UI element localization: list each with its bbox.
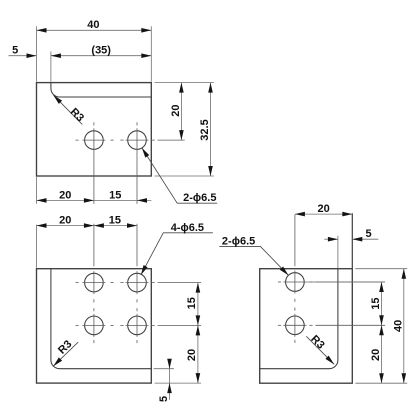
dimension 15 (view3 right row spacing) [306,282,385,325]
view1 bend line with R3 fillet corner [51,83,151,97]
dimension 40 (view1 overall width) [37,19,152,82]
svg-text:5: 5 [158,396,170,402]
dimension 20 (view2 right bottom offset) [155,325,202,383]
view3 side-view outline [260,269,353,384]
view2 vertical center line left column [93,224,95,343]
dimension (35) (view1 inner width) [51,44,151,81]
svg-text:4-ϕ6.5: 4-ϕ6.5 [171,222,204,234]
label R3 (view2 fillet radius) [53,338,78,366]
dimension 5 (view3 flange thickness) [324,228,378,268]
svg-text:15: 15 [370,297,382,309]
view1 top-view outline [37,83,152,176]
view2 hole E (φ6.5 bottom-left) [85,316,104,335]
view1 vertical center line hole B [136,122,138,204]
svg-text:15: 15 [109,215,121,227]
svg-text:20: 20 [59,215,71,227]
view3 horizontal center line top hole [278,281,385,283]
view2 vertical center line right column [136,224,138,343]
dimension 15 (view2 right row spacing) [186,283,200,326]
view3 horizontal center line bottom hole [278,324,385,326]
svg-text:15: 15 [186,297,198,309]
leader 2-φ6.5 (view1 holes callout) [142,148,217,204]
view3 vertical center line through holes [294,215,296,344]
dimension 20 (view3 top hole offset) [295,203,352,268]
view1 hole B (φ6.5 right) [128,131,147,150]
svg-text:20: 20 [186,349,198,361]
view3 bend line with R3 fillet corner [260,269,338,369]
dimension 40 (view3 overall height) [355,269,407,384]
view2 hole C (φ6.5 top-left) [85,273,104,292]
view2 horizontal center line bottom row [76,324,202,326]
svg-text:20: 20 [370,349,382,361]
svg-text:20: 20 [170,104,182,116]
svg-text:(35): (35) [91,44,111,56]
view1 horizontal center line through holes [76,139,185,141]
view1 vertical center line hole A [93,122,95,204]
view2 hole F (φ6.5 bottom-right) [128,316,147,335]
svg-text:5: 5 [366,228,372,240]
dimension 5 (view2 base thickness) [154,359,174,402]
dimension 32.5 (view1 overall depth) [155,83,214,176]
svg-text:2-ϕ6.5: 2-ϕ6.5 [222,235,255,247]
label R3 (view3 fillet radius) [306,333,334,364]
view2 front-view outline [37,269,152,383]
dimension 20 (view1 right, hole offset) [155,83,214,141]
svg-text:5: 5 [12,44,18,56]
svg-text:40: 40 [392,320,404,332]
view3 hole G (φ6.5 top) [286,273,305,292]
dimension 20 (view3 right bottom offset) [370,325,384,383]
svg-text:32.5: 32.5 [199,119,211,140]
view3 hole H (φ6.5 bottom) [286,316,305,335]
svg-text:15: 15 [109,189,121,201]
leader 4-φ6.5 (view2 holes callout) [141,222,213,275]
svg-text:20: 20 [59,189,71,201]
view2 hole D (φ6.5 top-right) [128,273,147,292]
dimension 20 and 15 (view2 top hole spacing) [37,215,138,268]
view1 hole A (φ6.5 left) [85,131,104,150]
svg-text:40: 40 [87,19,99,31]
view2 horizontal center line top row [76,282,202,284]
svg-text:2-ϕ6.5: 2-ϕ6.5 [183,192,216,204]
leader 2-φ6.5 (view3 holes callout) [219,235,288,275]
view2 bend line with R3 fillet corner [51,269,151,369]
dimension 5 (view1 flange thickness) [9,44,37,58]
svg-text:20: 20 [317,203,329,215]
label R3 (view1 fillet radius) [53,95,86,124]
dimension 20 and 15 (view1 bottom hole spacing) [37,177,152,204]
